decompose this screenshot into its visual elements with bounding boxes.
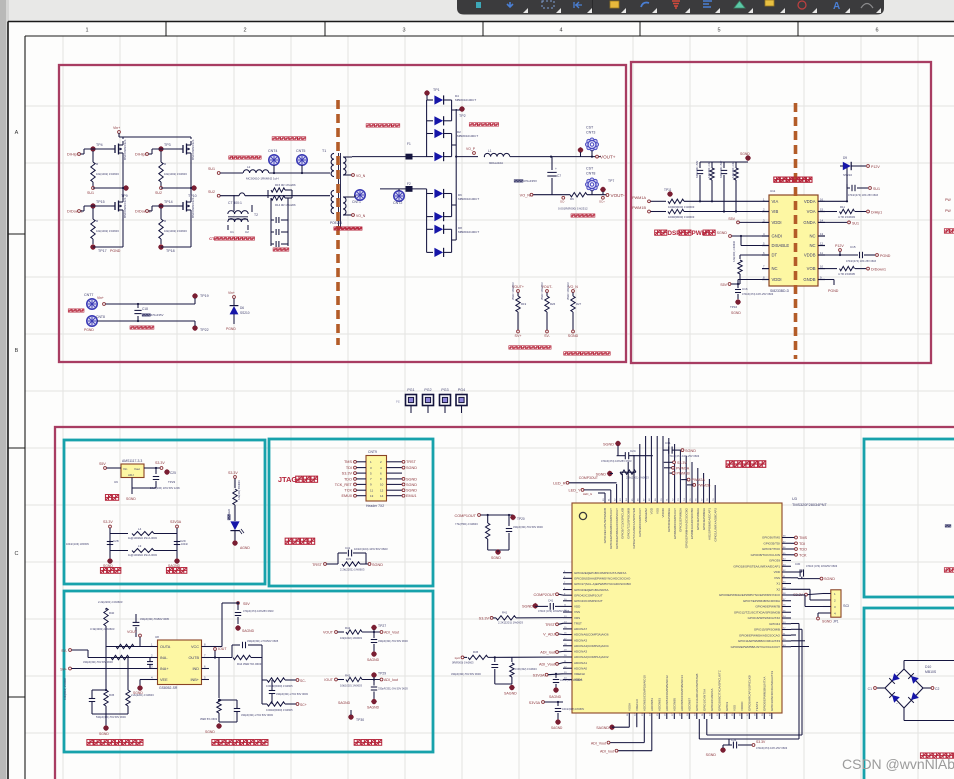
- svg-text:PWM1B: PWM1B: [632, 206, 646, 210]
- svg-text:C16: C16: [742, 287, 748, 291]
- svg-text:TP20: TP20: [517, 517, 525, 521]
- svg-text:ADCINA0: ADCINA0: [574, 666, 587, 670]
- svg-text:35kR 1%0603: 35kR 1%0603: [540, 282, 544, 300]
- svg-text:Vout: Vout: [134, 467, 140, 471]
- svg-text:CNT2: CNT2: [393, 201, 402, 205]
- svg-text:TRST: TRST: [574, 621, 582, 625]
- svg-text:TP22: TP22: [200, 328, 209, 332]
- svg-text:NC: NC: [809, 243, 815, 248]
- svg-text:TCK_RET: TCK_RET: [335, 483, 353, 487]
- svg-text:EMU0: EMU0: [341, 494, 352, 498]
- svg-text:Header 7X2: Header 7X2: [366, 504, 384, 508]
- svg-text:GPIO4EPWM2A: GPIO4EPWM2A: [696, 508, 700, 530]
- svg-text:TRST: TRST: [545, 623, 556, 627]
- svg-text:BSC060N04LS: BSC060N04LS: [191, 198, 195, 218]
- svg-text:470nF(474) 10% 25V 0603: 470nF(474) 10% 25V 0603: [742, 292, 774, 296]
- svg-text:14: 14: [380, 494, 384, 498]
- svg-text:R45: R45: [473, 650, 479, 654]
- svg-text:SV-: SV-: [544, 334, 551, 338]
- svg-text:VDDI: VDDI: [772, 220, 782, 225]
- svg-text:ADCINB4/COMP2B/AIO12: ADCINB4/COMP2B/AIO12: [665, 675, 669, 711]
- svg-text:PG3: PG3: [441, 388, 448, 392]
- svg-text:S3.3V: S3.3V: [479, 617, 490, 621]
- svg-text:AGND: AGND: [240, 546, 250, 550]
- svg-text:330pF(331) 50V: 330pF(331) 50V: [720, 160, 723, 178]
- svg-text:VO_N: VO_N: [520, 194, 531, 198]
- svg-text:GNDI: GNDI: [772, 234, 782, 239]
- svg-text:VSS: VSS: [774, 576, 780, 580]
- svg-text:VOUT-: VOUT-: [611, 193, 626, 198]
- svg-text:INB+: INB+: [190, 678, 199, 682]
- svg-text:SU1: SU1: [852, 221, 859, 225]
- svg-text:VSS: VSS: [733, 705, 737, 711]
- svg-text:NC: NC: [772, 266, 778, 271]
- svg-text:GNDA: GNDA: [803, 220, 815, 225]
- svg-text:R15 0R 1%1206: R15 0R 1%1206: [275, 183, 296, 187]
- svg-text:ADCINB2/COMP1B/AIO10: ADCINB2/COMP1B/AIO10: [643, 675, 647, 711]
- svg-text:CNT1: CNT1: [352, 200, 361, 204]
- svg-text:GPIO39: GPIO39: [769, 559, 780, 563]
- svg-text:INA+: INA+: [160, 667, 169, 671]
- svg-text:VREFLO: VREFLO: [635, 698, 639, 711]
- svg-text:ADCINB3: ADCINB3: [658, 698, 662, 711]
- svg-text:VREGENZ: VREGENZ: [644, 508, 648, 523]
- svg-text:VDDB: VDDB: [804, 253, 816, 258]
- svg-text:GPIO15/SPISOMIB: GPIO15/SPISOMIB: [754, 628, 780, 632]
- svg-text:Vin+: Vin+: [97, 296, 104, 300]
- svg-text:470nF(474) 10%25V 0603: 470nF(474) 10%25V 0603: [601, 459, 632, 463]
- svg-text:BSC060N04LS: BSC060N04LS: [191, 140, 195, 160]
- svg-text:COMP2OUT: COMP2OUT: [533, 593, 555, 597]
- svg-text:LED_G: LED_G: [583, 492, 592, 496]
- svg-text:MBRD10100CT: MBRD10100CT: [457, 134, 478, 138]
- svg-text:EPWM1B/COMP1OUT: EPWM1B/COMP1OUT: [673, 508, 677, 539]
- svg-text:SGND: SGND: [406, 477, 417, 481]
- svg-text:A: A: [15, 130, 19, 136]
- svg-text:SGND: SGND: [685, 449, 696, 453]
- svg-text:R26: R26: [550, 302, 556, 306]
- svg-text:ADI_Iout: ADI_Iout: [384, 678, 398, 682]
- svg-text:GPIO8/EPWM5A/ADCSOCAO: GPIO8/EPWM5A/ADCSOCAO: [739, 633, 781, 637]
- svg-text:SAGND: SAGND: [367, 706, 380, 710]
- svg-text:R41: R41: [502, 611, 508, 615]
- svg-text:VDDIO: VDDIO: [740, 701, 744, 711]
- svg-text:ADCINA4(COMP2A)AIO4: ADCINA4(COMP2A)AIO4: [574, 644, 609, 648]
- svg-text:GPIO38/TCK/XCLKIN: GPIO38/TCK/XCLKIN: [751, 553, 780, 557]
- svg-text:S3.3V: S3.3V: [756, 740, 766, 744]
- svg-text:C1: C1: [868, 687, 872, 691]
- svg-text:VOB: VOB: [807, 266, 816, 271]
- svg-text:ADCINB7: ADCINB7: [688, 698, 692, 711]
- svg-text:CNT8: CNT8: [96, 315, 105, 319]
- svg-text:SGND: SGND: [740, 152, 750, 156]
- svg-text:Vin+: Vin+: [113, 126, 120, 130]
- svg-text:GPIO0/EPWM3B/LINTXA: GPIO0/EPWM3B/LINTXA: [763, 677, 767, 711]
- svg-text:TDI: TDI: [346, 466, 352, 470]
- svg-text:6: 6: [875, 28, 878, 34]
- svg-text:PG2: PG2: [424, 388, 431, 392]
- svg-text:470nF(474) 10% 25V 0603: 470nF(474) 10% 25V 0603: [846, 260, 877, 263]
- svg-text:POE226: POE226: [330, 221, 342, 225]
- svg-text:10k(1002) 1%0603: 10k(1002) 1%0603: [96, 229, 119, 233]
- svg-text:13: 13: [820, 232, 824, 236]
- svg-text:~: ~: [896, 671, 898, 675]
- svg-text:2.2k(2201) 1%0603: 2.2k(2201) 1%0603: [626, 476, 649, 480]
- svg-text:SAGND: SAGND: [504, 692, 517, 696]
- svg-text:35kR 5% 0603: 35kR 5% 0603: [200, 717, 218, 721]
- svg-text:GS8052-SR: GS8052-SR: [159, 686, 178, 690]
- svg-text:S5V: S5V: [720, 283, 727, 287]
- svg-text:VSS: VSS: [655, 508, 659, 514]
- svg-text:GPIO35/TDI: GPIO35/TDI: [763, 541, 780, 545]
- svg-text:R40: R40: [109, 611, 115, 615]
- svg-text:R27: R27: [576, 302, 582, 306]
- svg-text:EMU1: EMU1: [406, 494, 417, 498]
- svg-text:COMP3OUT: COMP3OUT: [579, 476, 598, 480]
- svg-text:TP9: TP9: [121, 194, 128, 198]
- svg-text:12: 12: [820, 242, 824, 246]
- svg-text:LED_Y: LED_Y: [568, 489, 580, 493]
- svg-text:PWM1A: PWM1A: [676, 466, 690, 470]
- svg-text:SV-: SV-: [61, 649, 68, 653]
- svg-text:X1: X1: [776, 582, 780, 586]
- svg-text:B: B: [15, 348, 19, 354]
- svg-text:PE: PE: [396, 400, 400, 404]
- svg-text:13: 13: [370, 494, 374, 498]
- svg-text:SS210: SS210: [240, 311, 250, 315]
- svg-text:MB10S: MB10S: [925, 670, 937, 674]
- svg-text:TCK: TCK: [344, 489, 352, 493]
- svg-text:VDDA: VDDA: [804, 199, 816, 204]
- svg-text:GPIO28(SDAA)EPWM5YNC/ADCSOCAO: GPIO28(SDAA)EPWM5YNC/ADCSOCAO: [574, 577, 631, 581]
- svg-text:GPIO6EPWM4A/ADCSOCBO: GPIO6EPWM4A/ADCSOCBO: [684, 507, 688, 548]
- svg-text:330pF(331) 5% 50V 0603: 330pF(331) 5% 50V 0603: [83, 660, 113, 664]
- svg-text:U3: U3: [792, 497, 797, 501]
- svg-text:GPIO5/HRCAP1/SPICLKB: GPIO5/HRCAP1/SPICLKB: [748, 675, 752, 711]
- svg-text:103nF(104) 10% 50V 0603: 103nF(104) 10% 50V 0603: [354, 547, 388, 551]
- svg-text:GPIO1/LINRXA/SBCAP2: GPIO1/LINRXA/SBCAP2: [713, 508, 717, 542]
- svg-text:10k(1002) 1%0603: 10k(1002) 1%0603: [340, 636, 362, 640]
- svg-text:0.001R(R000) 1%0605: 0.001R(R000) 1%0605: [266, 708, 293, 712]
- svg-text:JTAG: JTAG: [278, 475, 298, 484]
- svg-text:SCI: SCI: [843, 604, 849, 608]
- svg-text:R45: R45: [109, 693, 115, 697]
- svg-text:330pF(331) 5% 50V 0603: 330pF(331) 5% 50V 0603: [513, 525, 543, 529]
- svg-text:GPIO44: GPIO44: [769, 622, 780, 626]
- svg-text:S5V: S5V: [243, 602, 250, 606]
- svg-text:OUTB: OUTB: [188, 656, 199, 660]
- svg-text:SC+: SC+: [599, 200, 605, 204]
- svg-text:S3.3V: S3.3V: [155, 461, 165, 465]
- svg-text:TP1: TP1: [433, 88, 440, 92]
- svg-text:470nF(474) 10% 25V 0603: 470nF(474) 10% 25V 0603: [756, 746, 788, 750]
- svg-text:GPIO19/SCIRXDA/SDAA/TZ3: GPIO19/SCIRXDA/SDAA/TZ3: [770, 670, 774, 711]
- svg-text:TP27: TP27: [378, 624, 386, 628]
- svg-text:TP19: TP19: [200, 294, 209, 298]
- svg-text:ADCINB6/COMP3B/AIO14: ADCINB6/COMP3B/AIO14: [680, 675, 684, 711]
- svg-text:SU1: SU1: [87, 191, 94, 195]
- svg-text:2.2K(2201) 1%0603: 2.2K(2201) 1%0603: [498, 621, 523, 625]
- svg-text:CNT4: CNT4: [268, 149, 277, 153]
- svg-text:11: 11: [370, 488, 373, 492]
- svg-text:GPIO7/EPWM4B/SCIRXDA: GPIO7/EPWM4B/SCIRXDA: [743, 599, 780, 603]
- svg-text:4: 4: [559, 28, 562, 34]
- svg-text:16: 16: [820, 197, 824, 201]
- svg-text:11: 11: [820, 251, 823, 255]
- svg-text:A: A: [833, 1, 840, 12]
- svg-text:TP7: TP7: [608, 179, 614, 183]
- svg-text:2.2k(2201) 1%0603: 2.2k(2201) 1%0603: [98, 600, 123, 604]
- svg-text:C30: C30: [795, 562, 801, 566]
- svg-text:X2: X2: [776, 587, 780, 591]
- svg-text:L2: L2: [247, 165, 251, 169]
- svg-text:C24: C24: [630, 449, 636, 453]
- svg-text:PWM2A: PWM2A: [692, 478, 706, 482]
- svg-text:SGND: SGND: [717, 231, 728, 235]
- svg-text:330pF(331) 50V: 330pF(331) 50V: [696, 160, 699, 178]
- svg-text:R44 35kR 5% 0603: R44 35kR 5% 0603: [237, 662, 262, 666]
- svg-text:TRST: TRST: [312, 563, 323, 567]
- svg-text:IND: IND: [192, 667, 199, 671]
- svg-text:VOUT+: VOUT+: [600, 155, 616, 160]
- svg-text:GNDB: GNDB: [803, 277, 815, 282]
- svg-text:AMS1117-3.3: AMS1117-3.3: [122, 459, 142, 463]
- svg-text:D9: D9: [843, 156, 847, 160]
- svg-text:470nF(474) 10% 25V 0603: 470nF(474) 10% 25V 0603: [848, 194, 879, 197]
- svg-text:ADJ: ADJ: [128, 473, 134, 477]
- svg-text:CST: CST: [586, 126, 594, 130]
- svg-text:GPIO4/ECAP1/SPISIMOB: GPIO4/ECAP1/SPISIMOB: [603, 508, 607, 543]
- svg-text:IOUT: IOUT: [218, 647, 227, 651]
- svg-text:TMS: TMS: [344, 460, 352, 464]
- svg-text:PGND: PGND: [84, 328, 94, 332]
- svg-text:330pF(331) 2.5% 50V 0603: 330pF(331) 2.5% 50V 0603: [276, 692, 308, 696]
- svg-text:S3V3A: S3V3A: [533, 673, 545, 677]
- svg-text:3.3K(332) 1%0603: 3.3K(332) 1%0603: [515, 667, 537, 671]
- svg-text:SAGND: SAGND: [367, 658, 380, 662]
- svg-text:10: 10: [380, 483, 384, 487]
- svg-text:3.3k(3301) 1%0603: 3.3k(3301) 1%0603: [733, 240, 736, 262]
- svg-text:XRS: XRS: [574, 616, 580, 620]
- svg-text:330pF(331) 2.5% 50V 0603: 330pF(331) 2.5% 50V 0603: [241, 713, 273, 717]
- svg-text:P12V: P12V: [871, 165, 880, 169]
- svg-text:470nF(474) 10% 25V 0603: 470nF(474) 10% 25V 0603: [668, 454, 700, 458]
- svg-text:GPIO06EPWM3A: GPIO06EPWM3A: [667, 508, 671, 532]
- svg-text:C15: C15: [850, 245, 856, 249]
- svg-text:TP15: TP15: [96, 200, 105, 204]
- svg-text:C41: C41: [345, 546, 351, 550]
- svg-text:SAGND: SAGND: [242, 629, 255, 633]
- svg-text:TMS320F28034PNT: TMS320F28034PNT: [792, 503, 828, 507]
- svg-text:PG4: PG4: [458, 388, 465, 392]
- svg-text:470pF(474) 10%25V 0603: 470pF(474) 10%25V 0603: [243, 609, 274, 613]
- svg-text:15: 15: [820, 208, 824, 212]
- svg-text:GPIO4EPWM3A: GPIO4EPWM3A: [702, 508, 706, 530]
- svg-text:C: C: [15, 551, 19, 557]
- svg-text:VREFHI: VREFHI: [574, 672, 585, 676]
- svg-text:VSS: VSS: [574, 610, 580, 614]
- svg-text:D6: D6: [240, 306, 244, 310]
- svg-text:TP11: TP11: [664, 188, 672, 192]
- svg-text:TP17: TP17: [98, 249, 107, 253]
- svg-text:VSSA: VSSA: [628, 703, 632, 711]
- svg-text:Vin+: Vin+: [228, 291, 235, 295]
- svg-text:S5V: S5V: [728, 217, 735, 221]
- svg-text:T1: T1: [322, 149, 326, 153]
- svg-text:C1: C1: [230, 230, 234, 234]
- svg-text:GPIO23EQEP1B/LINRXA: GPIO23EQEP1B/LINRXA: [574, 588, 609, 592]
- svg-text:SGND: SGND: [126, 497, 136, 501]
- svg-text:GPIO40/EPWM7B: GPIO40/EPWM7B: [755, 605, 780, 609]
- svg-text:VDD: VDD: [574, 605, 581, 609]
- svg-text:470nF (474) 10%25V 0603: 470nF (474) 10%25V 0603: [806, 564, 838, 568]
- svg-text:330pF(331) 5%50V 0605: 330pF(331) 5%50V 0605: [140, 617, 170, 621]
- svg-text:VIA: VIA: [772, 199, 779, 204]
- svg-text:2: 2: [243, 28, 246, 34]
- svg-text:CNT5: CNT5: [296, 149, 305, 153]
- svg-text:ADCINA7: ADCINA7: [574, 627, 587, 631]
- svg-text:TP30: TP30: [356, 718, 364, 722]
- svg-text:S3.3V: S3.3V: [228, 471, 238, 475]
- svg-text:TP14: TP14: [164, 200, 173, 204]
- svg-text:GPIO36/TMS: GPIO36/TMS: [762, 536, 780, 540]
- svg-text:330pF(331) 5% 50V 0603: 330pF(331) 5% 50V 0603: [378, 639, 408, 643]
- svg-text:S3.3V: S3.3V: [342, 472, 353, 476]
- svg-text:VDDIO: VDDIO: [661, 507, 665, 517]
- svg-text:VOA: VOA: [807, 209, 816, 214]
- svg-text:GPIO2/CANRXA: GPIO2/CANRXA: [710, 688, 714, 711]
- svg-text:100nF(008) 10%50V: 100nF(008) 10%50V: [562, 708, 584, 711]
- svg-text:ADCINA2(COMP1A)AIO2: ADCINA2(COMP1A)AIO2: [574, 655, 609, 659]
- svg-text:35kR 1%0603: 35kR 1%0603: [566, 282, 570, 300]
- svg-text:SGND: SGND: [205, 730, 215, 734]
- svg-text:GPIO20/COMP1OUT: GPIO20/COMP1OUT: [638, 508, 642, 537]
- svg-text:0R(R000) 1%0603: 0R(R000) 1%0603: [452, 661, 474, 665]
- svg-text:SGND: SGND: [491, 556, 501, 560]
- svg-text:TP3: TP3: [164, 143, 171, 147]
- svg-text:7.5k(7501) 1%0603: 7.5k(7501) 1%0603: [455, 522, 478, 526]
- svg-text:10k(1002) 1%0603: 10k(1002) 1%0603: [164, 229, 187, 233]
- svg-text:3.3k(3301) 1%0603: 3.3k(3301) 1%0603: [90, 627, 115, 631]
- svg-text:TP4: TP4: [96, 143, 103, 147]
- svg-text:ADCINA3: ADCINA3: [574, 650, 587, 654]
- svg-text:U9: U9: [114, 480, 118, 484]
- svg-text:SGND: SGND: [568, 334, 579, 338]
- svg-text:2.2k(2201) 1%0603: 2.2k(2201) 1%0603: [340, 568, 365, 572]
- svg-text:L3: L3: [138, 544, 142, 548]
- svg-text:~: ~: [896, 702, 898, 706]
- svg-text:12: 12: [380, 488, 384, 492]
- svg-text:U8: U8: [155, 635, 159, 639]
- svg-text:C18: C18: [142, 307, 148, 311]
- svg-text:D10: D10: [925, 665, 931, 669]
- svg-text:VO_N: VO_N: [356, 174, 366, 178]
- svg-text:TP29: TP29: [378, 672, 386, 676]
- svg-text:330pF(331) 5% 50V 0603: 330pF(331) 5% 50V 0603: [378, 687, 408, 691]
- svg-text:SGND: SGND: [406, 489, 417, 493]
- svg-text:TP16: TP16: [730, 305, 738, 309]
- svg-text:MBRD10100CT: MBRD10100CT: [455, 98, 476, 102]
- svg-text:S5V: S5V: [99, 462, 106, 466]
- svg-text:DISABLE: DISABLE: [772, 243, 790, 248]
- svg-text:DT: DT: [772, 253, 778, 258]
- svg-text:MBRD10100CT: MBRD10100CT: [458, 230, 479, 234]
- svg-text:100R(R000) 1%0603: 100R(R000) 1%0603: [668, 215, 695, 219]
- svg-text:35kR 1%0603: 35kR 1%0603: [511, 282, 515, 300]
- svg-text:GPIO3/TZ2/SPISOMIB: GPIO3/TZ2/SPISOMIB: [626, 508, 630, 539]
- svg-text:SAGND: SAGND: [549, 695, 562, 699]
- svg-text:BSC060N04LS: BSC060N04LS: [123, 198, 127, 218]
- svg-text:470nF (474) 10%25V 0603: 470nF (474) 10%25V 0603: [538, 609, 570, 613]
- svg-text:GPIO0/EPWM1A/COMP2OUT: GPIO0/EPWM1A/COMP2OUT: [615, 508, 619, 549]
- svg-text:100nF: 100nF: [181, 543, 189, 546]
- svg-text:SGND: SGND: [406, 483, 417, 487]
- svg-text:SAGND: SAGND: [338, 701, 351, 705]
- svg-text:R39: R39: [346, 557, 352, 561]
- svg-text:GPIO17(SCL-A)EPWM5YNC/ADCSOCBO: GPIO17(SCL-A)EPWM5YNC/ADCSOCBO: [574, 582, 632, 586]
- svg-text:SC-: SC-: [300, 679, 306, 683]
- svg-text:DrHip1: DrHip1: [67, 153, 79, 157]
- svg-text:4.7R 1%0603: 4.7R 1%0603: [838, 215, 855, 219]
- svg-text:MBRD10100CT: MBRD10100CT: [458, 197, 479, 201]
- svg-text:DrDown1: DrDown1: [871, 268, 886, 272]
- svg-text:T2: T2: [254, 213, 258, 217]
- svg-text:LED_R: LED_R: [553, 481, 565, 485]
- svg-text:MCS0610-1R6MN2 1uH: MCS0610-1R6MN2 1uH: [246, 177, 279, 181]
- svg-text:5: 5: [717, 28, 720, 34]
- svg-text:C25: C25: [170, 471, 176, 475]
- svg-text:SGND: SGND: [731, 311, 741, 315]
- svg-text:3.3k(3301) 1%: 3.3k(3301) 1%: [708, 162, 711, 178]
- svg-text:VO_N: VO_N: [356, 214, 366, 218]
- svg-text:NC: NC: [809, 234, 815, 239]
- svg-text:VEE: VEE: [160, 678, 168, 682]
- svg-text:F1: F1: [407, 142, 411, 146]
- svg-text:BSC060N04LS: BSC060N04LS: [123, 140, 127, 160]
- svg-text:ADCINA6(COMP3A)AIO6: ADCINA6(COMP3A)AIO6: [574, 633, 609, 637]
- svg-text:GPIO29/SCITXDA/SPICLK/TZ: GPIO29/SCITXDA/SPICLK/TZ: [718, 670, 722, 711]
- svg-text:TMS: TMS: [799, 536, 807, 540]
- svg-text:GPIO22EQEP1B/COMP2OUT/LINRXA: GPIO22EQEP1B/COMP2OUT/LINRXA: [574, 571, 626, 575]
- svg-text:SGND: SGND: [822, 620, 832, 624]
- svg-text:330pF(331) 2.5%50V 0605: 330pF(331) 2.5%50V 0605: [247, 639, 279, 643]
- svg-text:PGND: PGND: [226, 327, 236, 331]
- svg-text:GPIO18/SPISTEA/LINRXA/ECAP1: GPIO18/SPISTEA/LINRXA/ECAP1: [733, 564, 780, 568]
- svg-text:10: 10: [820, 265, 824, 269]
- svg-text:1k@100MHz 25mA 0603: 1k@100MHz 25mA 0603: [128, 553, 157, 557]
- svg-text:SC+: SC+: [300, 703, 307, 707]
- svg-text:ADI_Vout: ADI_Vout: [384, 631, 399, 635]
- svg-text:TDO: TDO: [344, 477, 352, 481]
- svg-text:F2: F2: [407, 182, 411, 186]
- svg-text:S3V3A: S3V3A: [529, 701, 541, 705]
- svg-text:1: 1: [85, 28, 88, 34]
- svg-text:TP2: TP2: [459, 114, 466, 118]
- svg-text:GPIO1/EPWM1B/COMP1OUT: GPIO1/EPWM1B/COMP1OUT: [609, 508, 613, 549]
- svg-text:TDO: TDO: [799, 548, 807, 552]
- svg-text:R11: R11: [840, 205, 845, 209]
- svg-text:SAGND: SAGND: [596, 726, 609, 730]
- svg-text:GPIO37/TDO: GPIO37/TDO: [762, 547, 781, 551]
- svg-text:GPIO1/CANTXA: GPIO1/CANTXA: [703, 689, 707, 711]
- svg-text:GPIO9/EPWM5B/LINTXA/XCLKOUT: GPIO9/EPWM5B/LINTXA/XCLKOUT: [731, 645, 781, 649]
- svg-text:10k(1002) 1%0603: 10k(1002) 1%0603: [164, 172, 187, 176]
- svg-text:0.001R(R000) 1%2512: 0.001R(R000) 1%2512: [558, 207, 588, 211]
- svg-text:CNT7: CNT7: [84, 293, 93, 297]
- svg-text:PGND: PGND: [880, 254, 891, 258]
- svg-text:14: 14: [820, 218, 824, 222]
- svg-text:3: 3: [402, 28, 405, 34]
